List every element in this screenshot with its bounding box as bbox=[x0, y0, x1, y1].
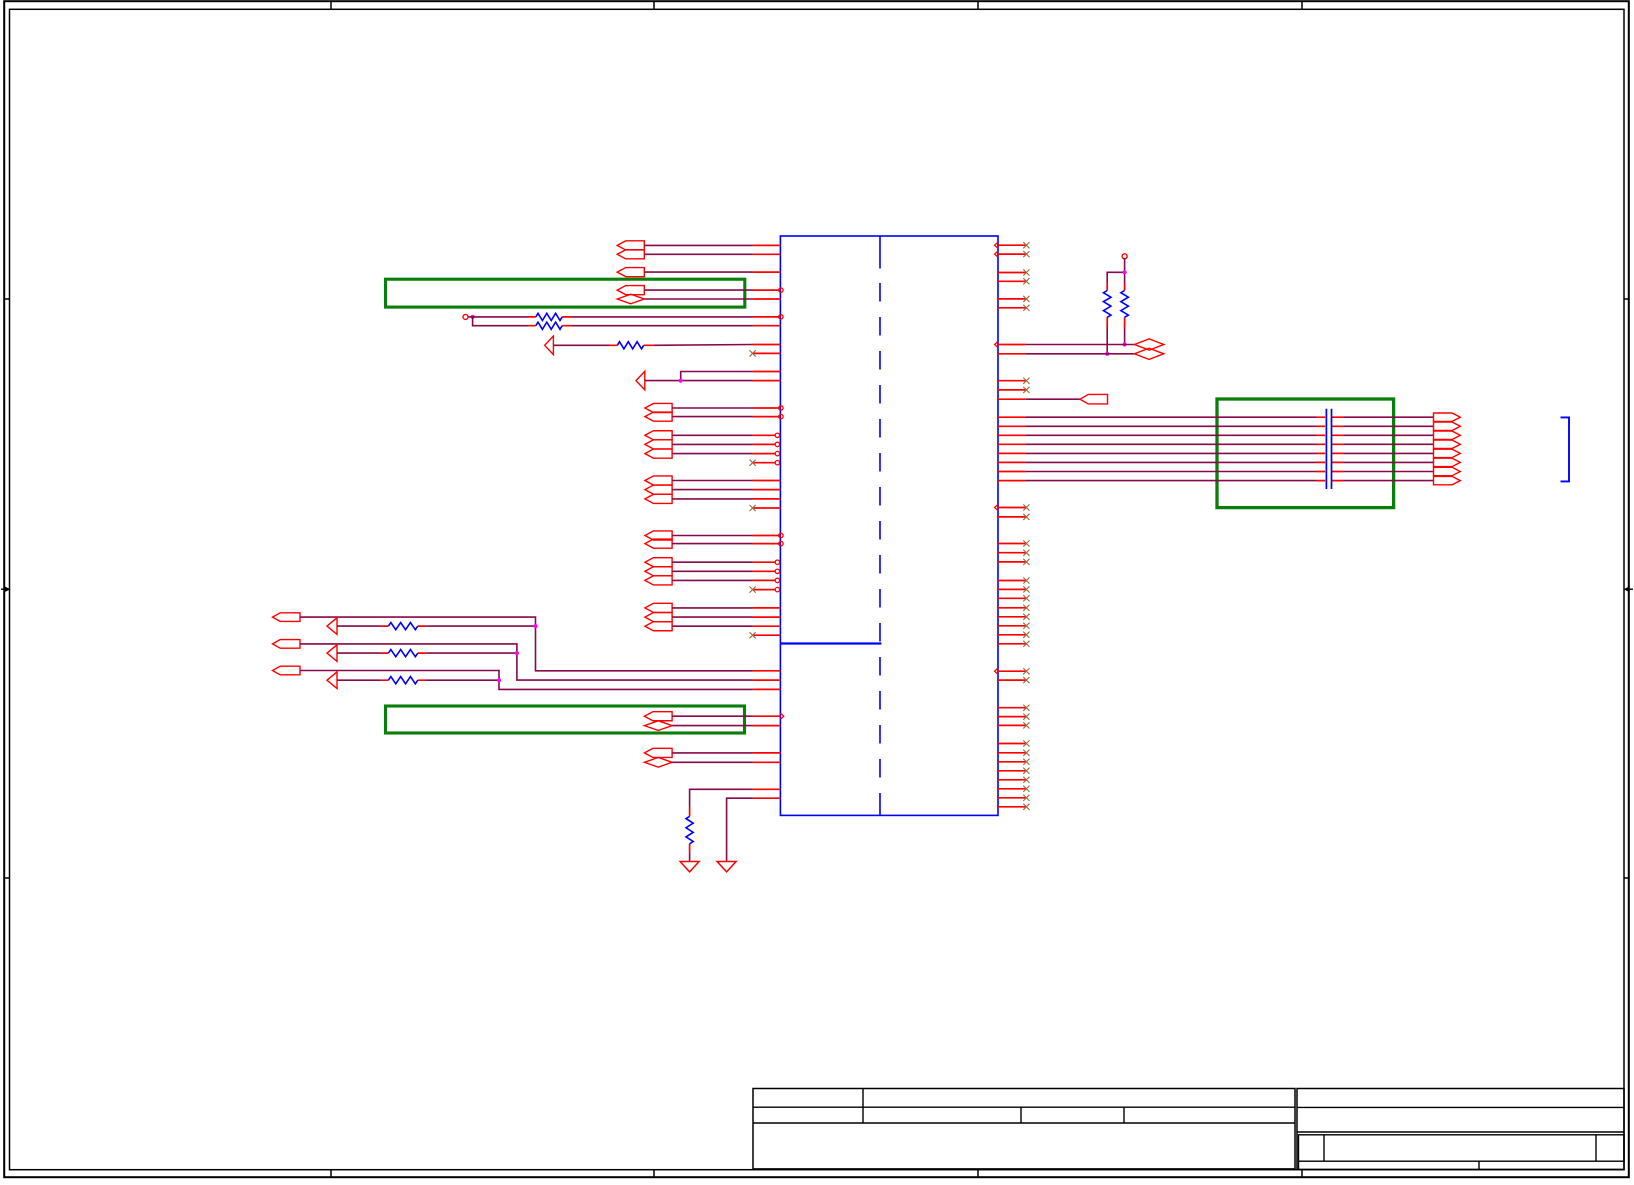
hierarchical port bbox=[645, 558, 672, 567]
port P9 (bidir) bbox=[644, 758, 672, 768]
U1 right pin arrows bbox=[995, 242, 998, 674]
wire bbox=[426, 652, 517, 654]
wire bbox=[644, 244, 752, 246]
port P7 (bidir) bbox=[644, 721, 672, 731]
hierarchical port bbox=[645, 576, 672, 585]
junction bbox=[1123, 270, 1127, 274]
wire bbox=[672, 607, 753, 609]
output ports bbox=[1434, 413, 1461, 485]
hierarchical port bbox=[645, 485, 672, 494]
highlight box HB2 bbox=[386, 706, 745, 733]
U1 left no-connect marks bbox=[750, 350, 756, 638]
hierarchical port bbox=[645, 431, 672, 440]
ground bbox=[680, 862, 699, 872]
wire bbox=[572, 316, 753, 318]
wire bbox=[672, 489, 753, 491]
wire bbox=[553, 344, 609, 346]
wire bbox=[672, 561, 753, 563]
IC U1 centre dashed line bbox=[879, 236, 881, 815]
resistor R6 bbox=[388, 677, 417, 684]
junction bbox=[515, 651, 519, 655]
resistor R9 leads bbox=[689, 807, 691, 852]
wire bbox=[426, 625, 535, 627]
power pin (circle) bbox=[1122, 254, 1127, 259]
hierarchical port bbox=[645, 531, 672, 540]
U1 left pin leads bbox=[753, 245, 781, 798]
wire bbox=[672, 752, 753, 754]
wire bbox=[1026, 398, 1080, 400]
resistor R4 leads bbox=[381, 625, 427, 627]
port PL1 bbox=[273, 613, 301, 622]
resistor R2 leads bbox=[528, 325, 572, 327]
junction bbox=[679, 379, 683, 383]
junction bbox=[1123, 342, 1127, 346]
highlight box HB1 bbox=[386, 279, 745, 307]
hierarchical port bbox=[645, 622, 672, 631]
wire bbox=[672, 416, 753, 418]
wire bbox=[672, 453, 753, 455]
port P2 bbox=[617, 250, 644, 259]
wire bbox=[1106, 327, 1108, 354]
port P5 (bidir) bbox=[617, 294, 644, 304]
wire bbox=[337, 652, 381, 654]
wire bbox=[672, 725, 753, 727]
wire bbox=[644, 289, 752, 291]
wire bbox=[572, 325, 753, 327]
resistor R8 leads bbox=[1124, 284, 1126, 328]
port PR3 bbox=[1080, 394, 1108, 404]
resistor R8 bbox=[1121, 291, 1129, 318]
port PL3 bbox=[273, 666, 301, 675]
wire bbox=[1026, 344, 1135, 346]
wire bbox=[337, 625, 381, 627]
resistor R1 leads bbox=[528, 316, 572, 318]
wire bbox=[1026, 353, 1135, 355]
port T1 (input arrow) bbox=[636, 371, 645, 390]
U1 left pin bubbles bbox=[775, 288, 783, 592]
hierarchical port bbox=[645, 494, 672, 503]
hierarchical port bbox=[645, 603, 672, 612]
wire bbox=[689, 852, 691, 861]
wire bbox=[672, 535, 753, 537]
wire bbox=[1107, 259, 1124, 284]
hierarchical port bbox=[645, 440, 672, 449]
wire bbox=[300, 671, 753, 690]
U1 right no-connect marks bbox=[1023, 242, 1029, 810]
capacitor plates bbox=[1326, 409, 1331, 489]
resistor R2 bbox=[536, 322, 562, 329]
resistor R3 leads bbox=[610, 344, 654, 346]
resistor R6 leads bbox=[381, 679, 427, 681]
bus wires bbox=[1026, 417, 1317, 480]
wire bbox=[672, 480, 753, 482]
wire bbox=[645, 372, 753, 381]
resistor R1 bbox=[536, 313, 562, 320]
resistor R4 bbox=[388, 623, 417, 630]
wire bbox=[468, 317, 528, 326]
hierarchical port bbox=[645, 476, 672, 485]
IC U1 section divider bbox=[780, 642, 881, 644]
port P1 bbox=[617, 241, 644, 250]
hierarchical port bbox=[645, 613, 672, 622]
highlight box HB3 bbox=[1217, 399, 1394, 508]
port P8 bbox=[644, 748, 672, 757]
junction bbox=[1105, 352, 1109, 356]
wire bbox=[672, 543, 753, 545]
wire bbox=[672, 570, 753, 572]
hierarchical port bbox=[645, 403, 672, 412]
port TL1 (input arrow) bbox=[327, 618, 337, 635]
junction bbox=[471, 315, 475, 319]
junction bbox=[533, 624, 537, 628]
hierarchical port bbox=[645, 539, 672, 548]
resistor R7 leads bbox=[1106, 283, 1108, 328]
wire bbox=[672, 498, 753, 500]
wire bbox=[672, 407, 753, 409]
wire bbox=[672, 616, 753, 618]
ground bbox=[717, 862, 736, 872]
resistor R5 leads bbox=[381, 652, 427, 654]
port T0 (input arrow) bbox=[545, 336, 554, 355]
IC U1 body bbox=[780, 236, 998, 815]
wire bbox=[644, 253, 752, 255]
hierarchical port bbox=[645, 412, 672, 421]
capacitor leads bbox=[1317, 417, 1344, 480]
wire bbox=[1124, 327, 1126, 345]
hierarchical port bbox=[645, 449, 672, 458]
resistor R5 bbox=[388, 650, 417, 657]
wire bbox=[672, 715, 753, 717]
resistor R7 bbox=[1103, 291, 1111, 318]
wire bbox=[672, 625, 753, 627]
port TL2 (input arrow) bbox=[327, 645, 337, 662]
wire bbox=[337, 679, 381, 681]
open port (circle) bbox=[463, 314, 468, 319]
wire bbox=[672, 443, 753, 445]
port P3 bbox=[617, 268, 644, 277]
U1 right pin leads bbox=[998, 245, 1026, 807]
wire bbox=[672, 761, 753, 763]
bus wires bbox=[1343, 417, 1433, 480]
port PR2 (bidir) bbox=[1134, 348, 1163, 359]
port TL3 (input arrow) bbox=[327, 672, 337, 689]
wire bbox=[727, 798, 753, 861]
port P6 bbox=[644, 712, 672, 721]
resistor R9 bbox=[686, 816, 693, 843]
bus bracket bbox=[1561, 417, 1570, 481]
wire bbox=[644, 271, 752, 273]
port P4 bbox=[617, 286, 644, 295]
port PR1 (bidir) bbox=[1134, 339, 1163, 350]
wire bbox=[653, 344, 752, 347]
wire bbox=[300, 617, 753, 671]
wire bbox=[300, 644, 753, 680]
hierarchical port bbox=[645, 567, 672, 576]
junction bbox=[497, 678, 501, 682]
U1 left pin arrow bbox=[780, 713, 783, 719]
resistor R3 bbox=[617, 342, 643, 349]
port PL2 bbox=[273, 640, 301, 649]
wire bbox=[672, 434, 753, 436]
wire bbox=[426, 679, 499, 681]
wire bbox=[690, 789, 753, 807]
wire bbox=[672, 579, 753, 581]
wire bbox=[644, 298, 752, 300]
